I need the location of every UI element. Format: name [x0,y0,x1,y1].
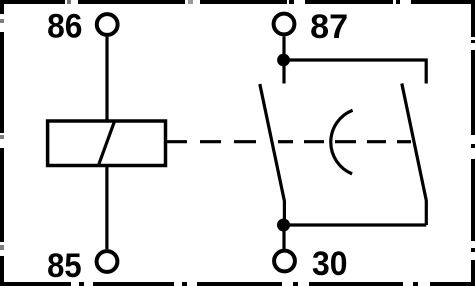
relay housing border, bottom edge [0,282,475,286]
mechanical link solid stub from coil [166,140,188,143]
wire bottom junction to 30 [282,225,285,249]
svg-text:86: 86 [47,7,82,45]
coil diagonal [98,121,114,166]
relay housing border, left edge [0,0,4,286]
terminal circle 86 [97,14,118,35]
relay housing border, right edge [471,0,475,286]
fixed contact 87 blade [402,84,427,226]
wire junction to 87 fixed contact bracket [284,60,427,84]
wire 87 down to junction [282,36,285,60]
actuator arc [331,110,353,174]
svg-text:87: 87 [310,8,348,46]
svg-text:85: 85 [47,247,82,285]
wire 86 to coil [105,37,108,121]
armature pivot stub below junction [282,60,285,84]
svg-text:30: 30 [312,245,348,283]
wire bottom junction to contact blade [284,223,427,226]
mechanical link dashed line [200,140,411,143]
wire coil to 85 [105,166,108,250]
relay housing border (dash-dot), top edge [0,0,475,4]
movable contact armature [260,84,285,225]
terminal circle 85 [97,251,118,272]
junction dot bottom [277,219,290,232]
terminal circle 87 [274,14,295,35]
terminal circle 30 [274,251,295,272]
relay coil K1 [48,121,166,166]
junction dot top [277,54,290,67]
